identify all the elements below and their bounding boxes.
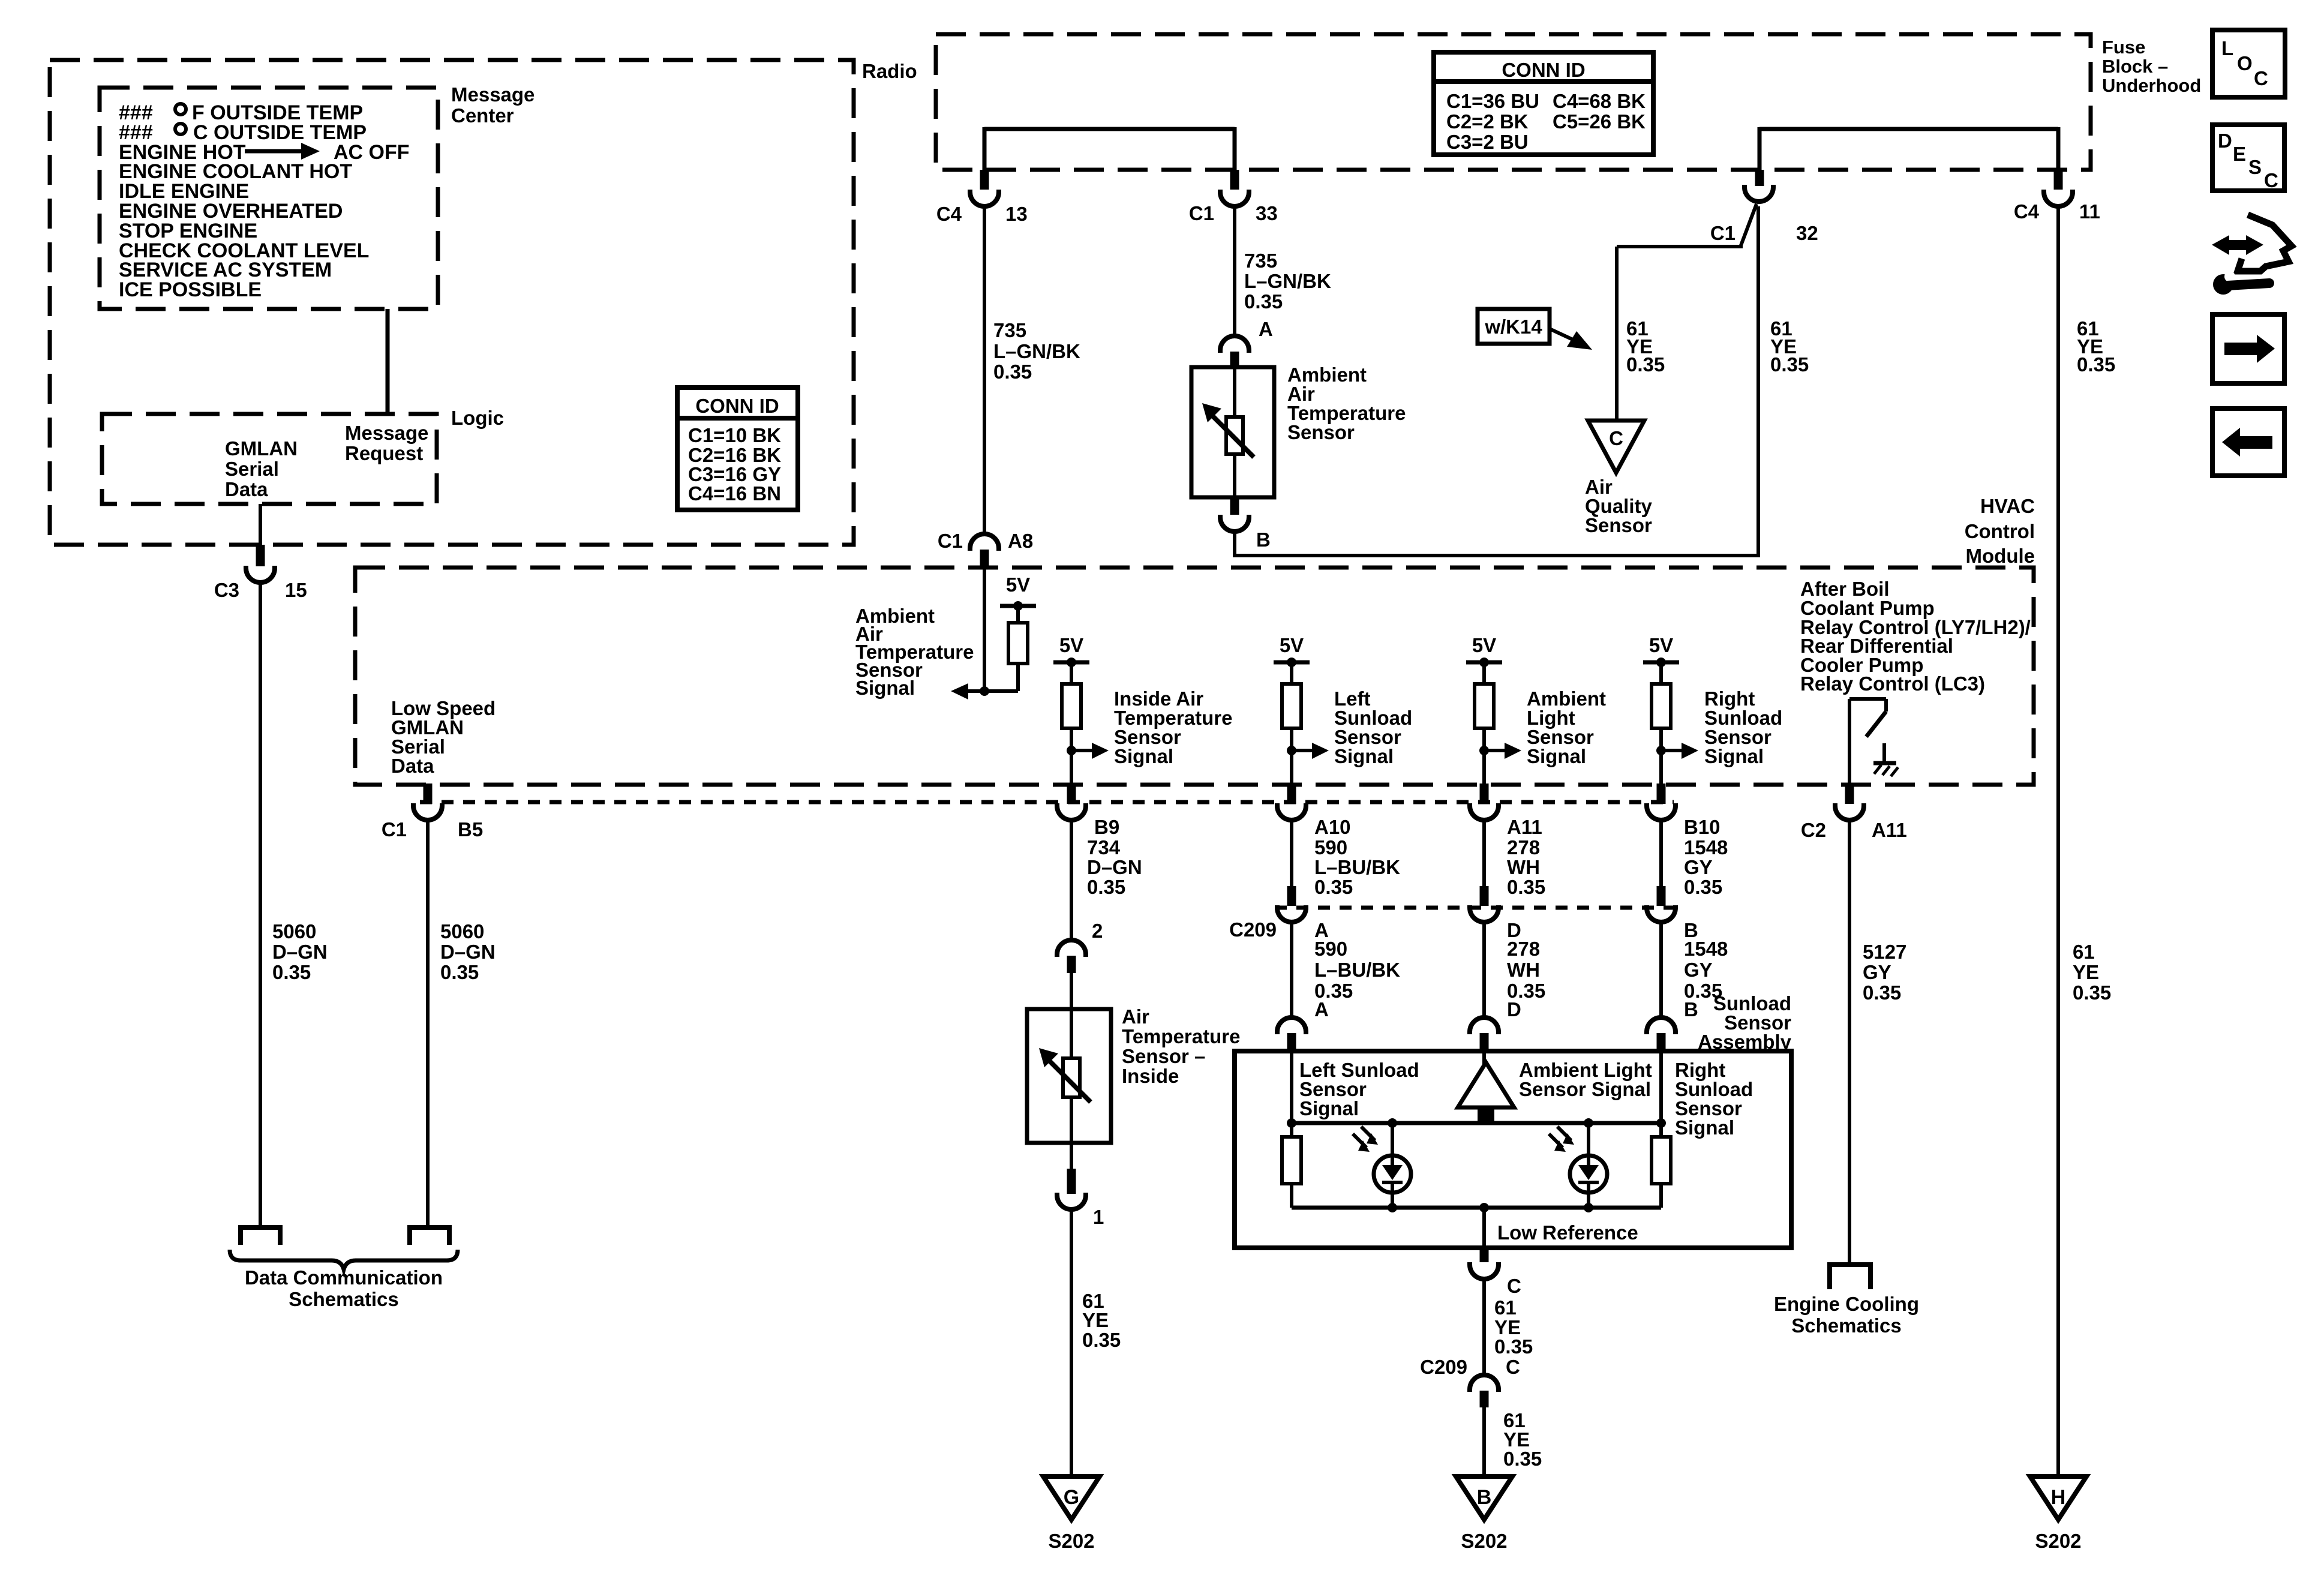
wire 734 D-GN xyxy=(1070,820,1073,940)
Low Reference label xyxy=(1497,1221,1638,1244)
Engine Cooling Schematics label xyxy=(1774,1293,1919,1337)
connector C4/11 xyxy=(2014,170,2100,223)
svg-text:15: 15 xyxy=(285,579,307,601)
svg-text:Module: Module xyxy=(1966,545,2035,567)
svg-text:2: 2 xyxy=(1092,920,1103,942)
Ambient Light Sensor Signal (inside box) xyxy=(1519,1059,1652,1100)
svg-text:5V: 5V xyxy=(1472,634,1496,656)
HVAC Control Module dashed box xyxy=(355,568,2034,785)
wire label 5060 D-GN 0.35 #1 xyxy=(272,920,328,983)
connector B10 xyxy=(1647,784,1721,838)
S202 label left xyxy=(1048,1530,1094,1552)
svg-text:5V: 5V xyxy=(1059,634,1083,656)
svg-text:Serial: Serial xyxy=(225,458,279,480)
wire label 735 L-GN/BK 0.35 #1 xyxy=(993,319,1080,383)
wire from B to C1/32 branch xyxy=(1233,206,1758,557)
Left Sunload Sensor Signal (inside box) xyxy=(1299,1059,1419,1119)
A11 C209 crossing xyxy=(1470,820,1545,1051)
connector C1/32 xyxy=(1710,170,1818,244)
off-page bracket right xyxy=(410,1227,449,1245)
connector C209/C xyxy=(1420,1356,1520,1407)
svg-text:C: C xyxy=(1506,1356,1520,1378)
svg-text:Temperature: Temperature xyxy=(1122,1025,1240,1047)
Low Speed GMLAN label xyxy=(391,697,496,777)
connector A11 xyxy=(1470,784,1542,838)
svg-text:S202: S202 xyxy=(2035,1530,2081,1552)
wire 735 L-GN/BK (C4/13 to C1/A8) xyxy=(983,206,986,534)
svg-text:A: A xyxy=(1259,318,1273,340)
double arrow and wrench icon xyxy=(2212,215,2292,295)
svg-text:L–BU/BK: L–BU/BK xyxy=(1314,959,1400,981)
svg-text:Relay Control (LC3): Relay Control (LC3) xyxy=(1800,673,1985,695)
svg-text:735: 735 xyxy=(1244,250,1277,272)
ground reference triangle H xyxy=(2030,1476,2086,1520)
svg-text:Block –: Block – xyxy=(2102,56,2168,77)
fuse block left bus wire xyxy=(984,127,1235,171)
svg-text:HVAC: HVAC xyxy=(1980,495,2035,517)
wire 61 YE to G xyxy=(1070,1209,1073,1476)
air temp sensor inside label xyxy=(1122,1005,1240,1087)
A8 5V pullup xyxy=(1000,574,1036,691)
svg-text:L: L xyxy=(2221,37,2233,59)
svg-text:0.35: 0.35 xyxy=(1863,981,1901,1004)
svg-text:G: G xyxy=(1064,1486,1079,1509)
fuse block right bus wire xyxy=(1759,127,2058,171)
wire label 61 YE 0.35 (B) xyxy=(1503,1409,1542,1470)
svg-text:GY: GY xyxy=(1863,961,1891,983)
svg-text:Data: Data xyxy=(225,478,268,500)
air quality sensor triangle C xyxy=(1588,421,1644,473)
svg-text:0.35: 0.35 xyxy=(1244,290,1283,313)
wire label 5127 GY 0.35 xyxy=(1863,941,1906,1004)
wire label 61 YE 0.35 (C) xyxy=(1494,1296,1533,1358)
air quality sensor label xyxy=(1585,476,1653,536)
svg-text:Inside: Inside xyxy=(1122,1065,1179,1087)
GMLAN Serial Data label xyxy=(225,437,298,500)
connector C1/A8 xyxy=(938,530,1033,568)
message center text list xyxy=(119,101,410,301)
svg-text:ICE POSSIBLE: ICE POSSIBLE xyxy=(119,278,262,301)
wire 61 YE to B xyxy=(1482,1407,1486,1476)
svg-text:C2=2 BK: C2=2 BK xyxy=(1446,110,1529,133)
svg-text:D–GN: D–GN xyxy=(272,941,328,963)
svg-text:B9: B9 xyxy=(1094,816,1119,838)
wire into inside sensor xyxy=(1070,973,1073,1009)
svg-text:Fuse: Fuse xyxy=(2102,37,2145,58)
connector C1/B5 xyxy=(382,784,483,840)
B9 5V pullup xyxy=(1053,634,1109,785)
S202 label middle xyxy=(1461,1530,1507,1552)
svg-text:5127: 5127 xyxy=(1863,941,1906,963)
chassis ground xyxy=(1873,743,1898,776)
svg-text:A11: A11 xyxy=(1507,816,1542,838)
svg-text:C5=26 BK: C5=26 BK xyxy=(1553,110,1646,133)
wire 735 L-GN/BK (C1/33 to A) xyxy=(1233,206,1236,336)
ambient air temperature sensor box xyxy=(1191,367,1274,497)
A11 5V pullup xyxy=(1466,634,1521,785)
svg-text:Signal: Signal xyxy=(1334,745,1394,767)
svg-text:Sensor Signal: Sensor Signal xyxy=(1519,1078,1651,1100)
svg-text:C1: C1 xyxy=(938,530,963,552)
wire label 734 D-GN 0.35 xyxy=(1087,836,1142,898)
svg-text:Sensor: Sensor xyxy=(1287,421,1355,443)
svg-text:Underhood: Underhood xyxy=(2102,75,2201,96)
svg-text:GY: GY xyxy=(1684,959,1713,981)
svg-text:5060: 5060 xyxy=(440,920,484,942)
svg-text:C209: C209 xyxy=(1420,1356,1467,1378)
connector C (low reference) xyxy=(1470,1246,1521,1297)
wire label 61 YE 0.35 (AQS) xyxy=(1626,317,1665,376)
Right Sunload Sensor Signal label xyxy=(1704,688,1782,767)
svg-text:0.35: 0.35 xyxy=(2073,981,2111,1004)
svg-text:H: H xyxy=(2051,1486,2066,1509)
svg-text:Signal: Signal xyxy=(1299,1097,1359,1119)
ambient sensor label xyxy=(1287,364,1406,443)
connector 2 of inside sensor xyxy=(1057,920,1103,973)
wire label 278 WH (above C209) xyxy=(1507,836,1545,898)
svg-text:C4=68 BK: C4=68 BK xyxy=(1553,90,1646,112)
Radio CONN ID table xyxy=(677,388,798,510)
wire 61 YE (C4/11 to S202 H) xyxy=(2056,206,2060,1476)
upper signal rail xyxy=(1292,1121,1661,1125)
connector C3/15 xyxy=(214,504,307,601)
svg-text:A11: A11 xyxy=(1872,819,1907,841)
B10 C209 crossing xyxy=(1647,820,1728,1051)
svg-text:Schematics: Schematics xyxy=(1791,1314,1901,1337)
off-page bracket left xyxy=(241,1227,280,1245)
svg-text:C1=36 BU: C1=36 BU xyxy=(1446,90,1539,112)
svg-text:Data: Data xyxy=(391,755,434,777)
svg-text:0.35: 0.35 xyxy=(1494,1335,1533,1358)
thermistor inside xyxy=(1039,1009,1091,1143)
svg-text:0.35: 0.35 xyxy=(1087,876,1125,898)
Radio label xyxy=(862,60,917,82)
A8 signal wire and arrow xyxy=(951,568,1018,700)
svg-text:C1: C1 xyxy=(1189,202,1214,224)
wire label 1548 GY (above C209) xyxy=(1684,836,1728,898)
svg-text:13: 13 xyxy=(1005,203,1028,225)
svg-text:C1: C1 xyxy=(382,818,407,840)
svg-text:C3: C3 xyxy=(214,579,239,601)
svg-text:Signal: Signal xyxy=(855,677,915,699)
svg-text:Engine Cooling: Engine Cooling xyxy=(1774,1293,1919,1315)
Right Sunload Sensor Signal (inside box) xyxy=(1675,1059,1753,1139)
svg-text:C: C xyxy=(1507,1275,1521,1297)
svg-text:Air: Air xyxy=(1122,1005,1149,1028)
w/K14 box xyxy=(1478,309,1550,344)
low reference exit wire xyxy=(1479,1203,1489,1246)
svg-text:C1: C1 xyxy=(1710,222,1736,244)
wire label 590 L-BU/BK (above C209) xyxy=(1314,836,1400,898)
off-page bracket engine cooling xyxy=(1830,1265,1870,1289)
Left Sunload Sensor Signal label xyxy=(1334,688,1412,767)
svg-text:5V: 5V xyxy=(1649,634,1673,656)
svg-text:Logic: Logic xyxy=(451,407,504,429)
svg-text:0.35: 0.35 xyxy=(1503,1448,1542,1470)
svg-text:A10: A10 xyxy=(1314,816,1351,838)
connector B of ambient sensor xyxy=(1220,497,1271,551)
Fuse Block label xyxy=(2102,37,2201,96)
wire 5127 GY xyxy=(1848,820,1851,1265)
svg-text:61: 61 xyxy=(1494,1296,1517,1319)
svg-text:S202: S202 xyxy=(1048,1530,1094,1552)
Sunload Sensor Assembly label xyxy=(1698,992,1792,1053)
svg-text:Sensor –: Sensor – xyxy=(1122,1045,1205,1067)
HVAC connector face dotted line xyxy=(420,800,1674,804)
B10 5V pullup xyxy=(1643,634,1698,785)
A10 C209 crossing xyxy=(1277,820,1400,1051)
svg-text:A: A xyxy=(1314,998,1329,1020)
connector B9 xyxy=(1057,784,1119,838)
Radio module dashed box xyxy=(50,60,854,545)
svg-text:1548: 1548 xyxy=(1684,938,1728,960)
svg-text:YE: YE xyxy=(1082,1309,1109,1331)
wire 61 YE to air quality sensor xyxy=(1617,204,1756,421)
svg-text:B: B xyxy=(1256,529,1271,551)
svg-text:0.35: 0.35 xyxy=(1082,1329,1121,1351)
thermistor ambient xyxy=(1202,367,1254,497)
wire label 61 YE 0.35 (right bottom) xyxy=(2073,941,2111,1004)
svg-text:5V: 5V xyxy=(1006,574,1030,596)
forward arrow icon box xyxy=(2212,314,2284,383)
svg-text:C3=2 BU: C3=2 BU xyxy=(1446,131,1529,153)
svg-text:Message: Message xyxy=(345,422,428,444)
svg-text:CONN ID: CONN ID xyxy=(695,395,779,417)
svg-text:Signal: Signal xyxy=(1704,745,1764,767)
sunload sensor assembly box xyxy=(1235,1051,1791,1248)
After Boil label block xyxy=(1800,578,2031,695)
svg-text:L–GN/BK: L–GN/BK xyxy=(1244,270,1331,292)
svg-text:C4: C4 xyxy=(936,203,962,225)
svg-text:5060: 5060 xyxy=(272,920,316,942)
svg-text:11: 11 xyxy=(2079,200,2100,223)
left sunload resistor xyxy=(1282,1137,1301,1208)
Data Communication Schematics label xyxy=(245,1266,443,1310)
connector A of ambient sensor xyxy=(1220,318,1273,368)
svg-text:5V: 5V xyxy=(1280,634,1304,656)
svg-text:278: 278 xyxy=(1507,938,1540,960)
Message Center label xyxy=(451,83,535,127)
air temperature sensor inside box xyxy=(1027,1009,1111,1143)
svg-text:w/K14: w/K14 xyxy=(1484,316,1542,338)
svg-text:A8: A8 xyxy=(1008,530,1033,552)
svg-text:D: D xyxy=(1507,998,1521,1020)
right photodiode xyxy=(1549,1118,1607,1212)
svg-text:C1=10 BK: C1=10 BK xyxy=(688,424,781,446)
svg-text:33: 33 xyxy=(1256,202,1278,224)
right sunload resistor xyxy=(1652,1137,1671,1208)
connector C1/33 xyxy=(1189,170,1278,224)
svg-text:Sensor: Sensor xyxy=(1585,514,1652,536)
Logic dashed box xyxy=(102,414,437,504)
svg-text:1548: 1548 xyxy=(1684,836,1728,858)
svg-text:B10: B10 xyxy=(1684,816,1721,838)
svg-text:0.35: 0.35 xyxy=(1626,353,1665,376)
wire label 61 YE 0.35 (G) xyxy=(1082,1290,1121,1351)
op-amp buffer xyxy=(1458,1062,1514,1124)
LOC icon box xyxy=(2212,30,2285,97)
svg-text:Signal: Signal xyxy=(1114,745,1173,767)
svg-text:0.35: 0.35 xyxy=(1684,876,1722,898)
svg-text:0.35: 0.35 xyxy=(1507,876,1545,898)
Message Request label xyxy=(345,422,428,464)
svg-text:Radio: Radio xyxy=(862,60,917,82)
svg-text:GMLAN: GMLAN xyxy=(225,437,298,460)
svg-text:32: 32 xyxy=(1796,222,1818,244)
svg-text:B5: B5 xyxy=(458,818,483,840)
Fuse CONN ID table xyxy=(1434,52,1653,155)
svg-text:Message: Message xyxy=(451,83,535,106)
lower reference rail xyxy=(1292,1206,1661,1210)
connector C2/A11 xyxy=(1801,784,1907,841)
wire 5060 D-GN right (B5) xyxy=(426,820,430,1227)
svg-text:590: 590 xyxy=(1314,836,1347,858)
connector 1 of inside sensor xyxy=(1057,1143,1104,1228)
svg-text:Signal: Signal xyxy=(1527,745,1586,767)
svg-text:0.35: 0.35 xyxy=(440,961,479,983)
svg-text:CONN ID: CONN ID xyxy=(1502,59,1585,81)
back arrow icon box xyxy=(2212,409,2284,476)
Logic label xyxy=(451,407,504,429)
svg-text:C209: C209 xyxy=(1229,918,1277,941)
svg-text:L–BU/BK: L–BU/BK xyxy=(1314,856,1400,878)
C209 dotted connector line xyxy=(1275,906,1677,910)
svg-text:734: 734 xyxy=(1087,836,1121,858)
svg-text:GY: GY xyxy=(1684,856,1713,878)
svg-text:0.35: 0.35 xyxy=(1314,876,1353,898)
svg-text:Control: Control xyxy=(1965,520,2035,542)
svg-text:0.35: 0.35 xyxy=(2077,353,2115,376)
svg-text:0.35: 0.35 xyxy=(272,961,311,983)
svg-text:Schematics: Schematics xyxy=(289,1288,398,1310)
wire 61 YE (below C) xyxy=(1482,1279,1486,1375)
Inside Air Temperature Sensor Signal label xyxy=(1114,688,1232,767)
svg-text:C: C xyxy=(1609,427,1623,449)
Fuse Block - Underhood dashed box xyxy=(936,34,2091,170)
S202 label right xyxy=(2035,1530,2081,1552)
svg-text:S: S xyxy=(2248,156,2262,178)
svg-text:C: C xyxy=(2254,67,2268,89)
svg-text:1: 1 xyxy=(1093,1206,1104,1228)
wire label 735 L-GN/BK 0.35 #2 xyxy=(1244,250,1331,313)
DESC icon box xyxy=(2212,125,2284,191)
pin A wire xyxy=(1287,1051,1296,1137)
wire label 61 YE 0.35 (right top) xyxy=(2077,317,2115,376)
svg-text:WH: WH xyxy=(1507,856,1540,878)
wire label 61 YE 0.35 (C1/32) xyxy=(1770,317,1809,376)
svg-text:L–GN/BK: L–GN/BK xyxy=(993,340,1080,362)
wire label 5060 D-GN 0.35 #2 xyxy=(440,920,496,983)
svg-text:590: 590 xyxy=(1314,938,1347,960)
svg-text:C: C xyxy=(2264,169,2278,191)
ground reference triangle G xyxy=(1043,1476,1100,1520)
svg-text:Request: Request xyxy=(345,442,423,464)
wire message-center to logic xyxy=(386,309,390,414)
svg-text:278: 278 xyxy=(1507,836,1540,858)
svg-text:735: 735 xyxy=(993,319,1026,341)
svg-text:0.35: 0.35 xyxy=(1770,353,1809,376)
Message Center dashed box xyxy=(100,88,438,309)
connector C4/13 xyxy=(936,170,1028,225)
svg-text:YE: YE xyxy=(2073,961,2099,983)
svg-text:WH: WH xyxy=(1507,959,1540,981)
C209 label xyxy=(1229,918,1277,941)
svg-text:C4=16 BN: C4=16 BN xyxy=(688,482,781,505)
connector A10 xyxy=(1277,784,1351,838)
svg-text:C2: C2 xyxy=(1801,819,1826,841)
svg-text:Low Reference: Low Reference xyxy=(1497,1221,1638,1244)
svg-text:O: O xyxy=(2237,52,2253,74)
pin D wire into op-amp xyxy=(1482,1051,1486,1065)
svg-text:Data Communication: Data Communication xyxy=(245,1266,443,1289)
svg-text:D–GN: D–GN xyxy=(1087,856,1142,878)
svg-text:0.35: 0.35 xyxy=(993,361,1032,383)
svg-text:D–GN: D–GN xyxy=(440,941,496,963)
Ambient Air Temperature Sensor Signal label xyxy=(855,605,974,699)
wire 5060 D-GN left xyxy=(259,583,262,1227)
svg-text:E: E xyxy=(2233,143,2246,165)
Ambient Light Sensor Signal label xyxy=(1527,688,1606,767)
svg-text:D: D xyxy=(2218,130,2232,152)
svg-text:B: B xyxy=(1477,1486,1492,1509)
pin B wire xyxy=(1656,1051,1666,1137)
svg-text:B: B xyxy=(1684,998,1698,1020)
svg-text:C4: C4 xyxy=(2014,200,2040,223)
svg-text:S202: S202 xyxy=(1461,1530,1507,1552)
data communication brace xyxy=(230,1250,458,1269)
svg-text:Signal: Signal xyxy=(1675,1116,1734,1139)
A10 5V pullup xyxy=(1274,634,1329,785)
HVAC Control Module label xyxy=(1965,495,2035,567)
svg-text:61: 61 xyxy=(2073,941,2095,963)
relay control switch xyxy=(1849,699,1886,785)
ground reference triangle B xyxy=(1456,1476,1512,1520)
left photodiode xyxy=(1353,1118,1411,1212)
svg-text:Center: Center xyxy=(451,104,514,127)
w/K14 arrow xyxy=(1550,329,1592,350)
